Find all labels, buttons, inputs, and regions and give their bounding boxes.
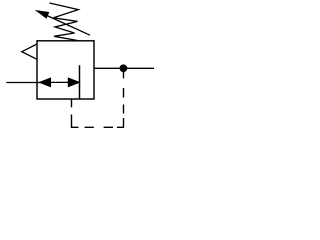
pressure regulator body (valve box) — [37, 41, 94, 99]
wire: outlet port line (right) — [94, 67, 154, 69]
wire: pilot dashed line, dash below junction — [123, 68, 125, 78]
wire: pilot dashed line, bottom-right corner piece — [117, 118, 124, 127]
wire: pilot dashed line, bottom horizontal dash 1 — [85, 126, 94, 128]
spring (adjustment spring zigzag on top of body) — [50, 3, 79, 41]
wire: inlet port line (left) — [6, 82, 40, 84]
wire: pilot dashed line, right vertical dash 1 — [123, 105, 125, 114]
wire: pilot dashed line, bottom horizontal dash 2 — [104, 126, 113, 128]
junction (node on outlet line) — [120, 64, 128, 72]
wire: pilot dashed line, right vertical dash 2 — [123, 88, 125, 98]
wire: pilot dashed line, left vertical dash with bottom-left corner — [72, 115, 79, 128]
adjustability arrow through spring — [35, 10, 90, 35]
internal outlet stem (vertical bar inside body) — [79, 65, 81, 98]
wire: pilot line stub below body — [71, 99, 73, 108]
relief vent triangle on left side of body — [22, 44, 37, 59]
flow-path double-headed arrow inside body — [40, 78, 80, 87]
